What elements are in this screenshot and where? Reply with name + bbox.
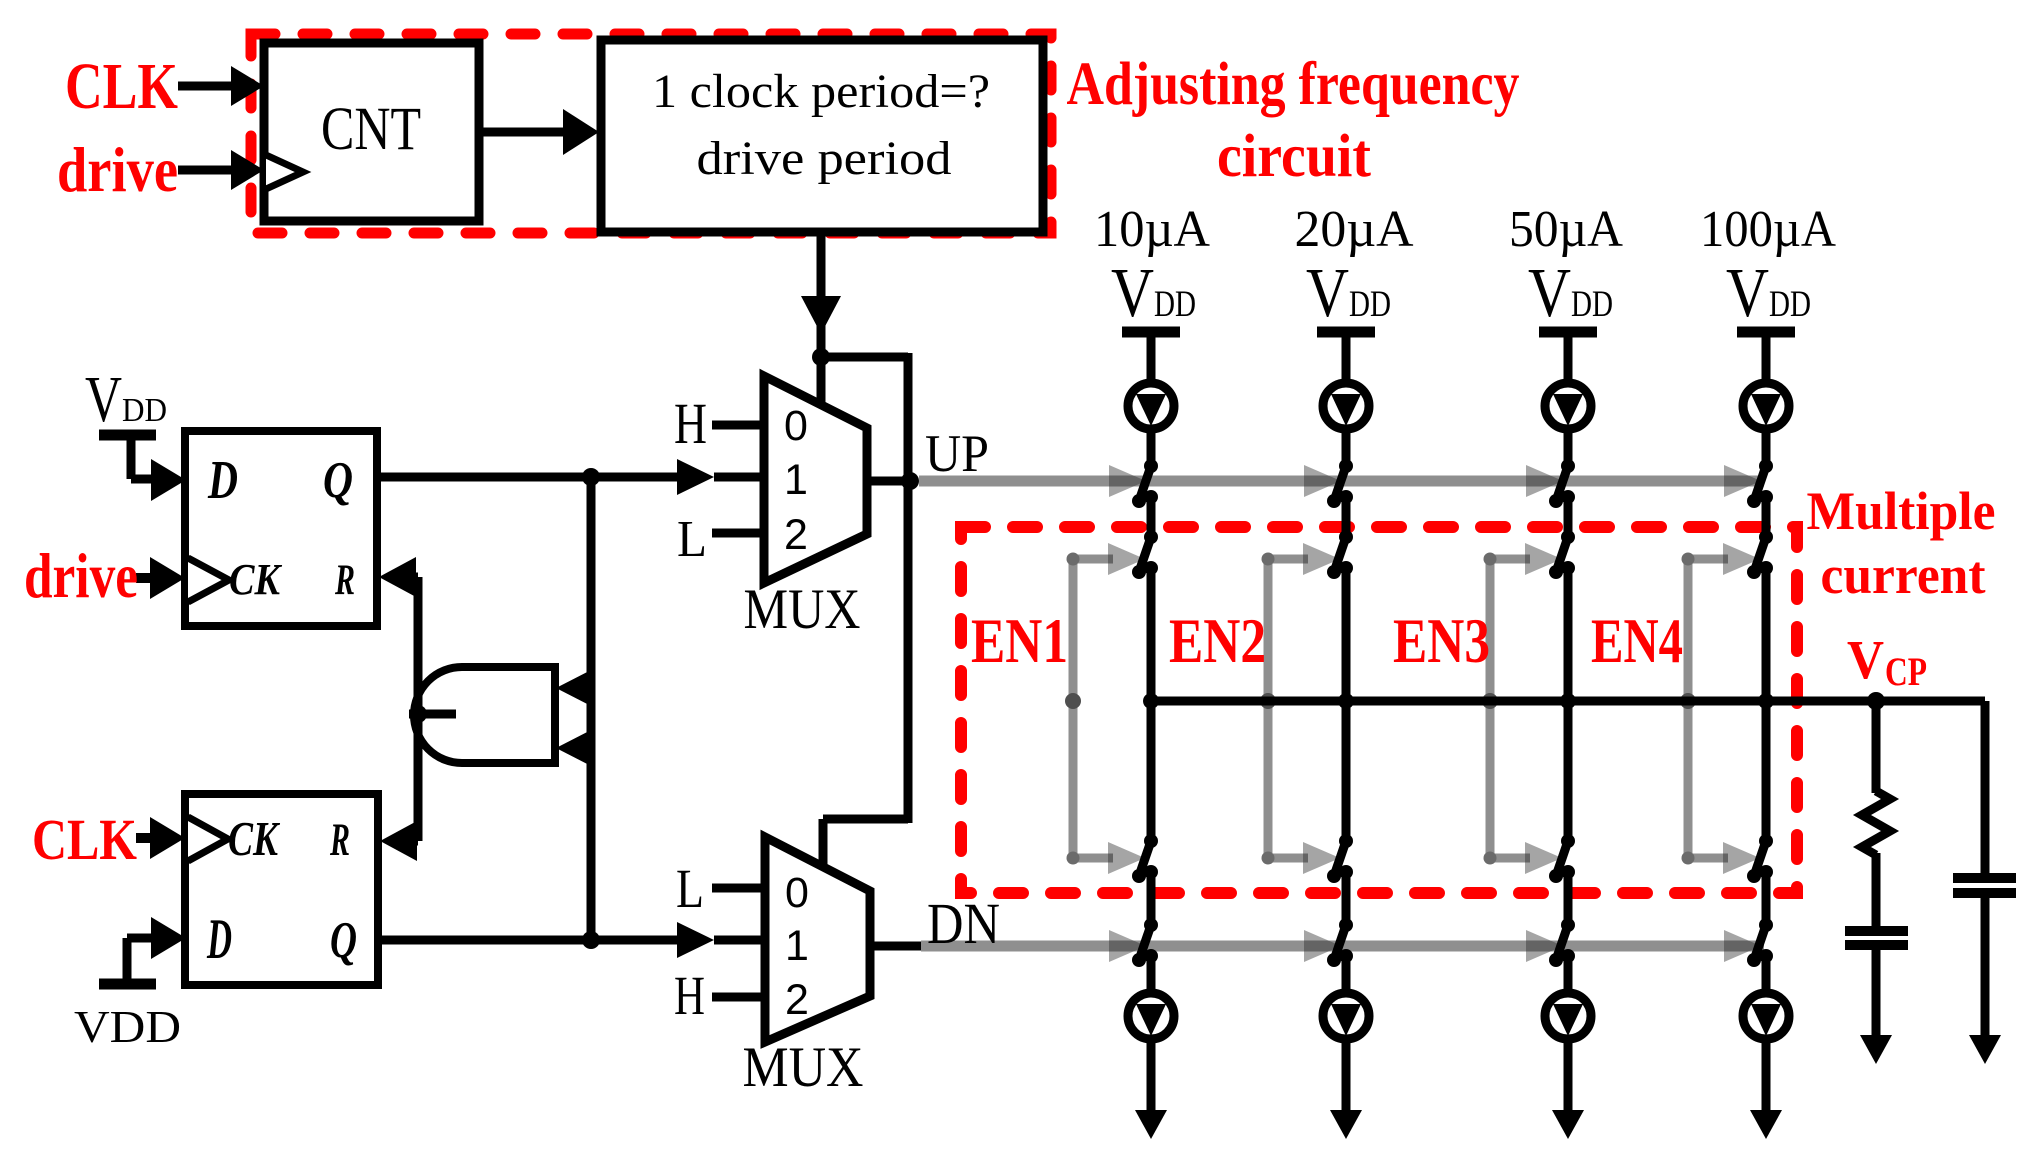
svg-text:CP: CP xyxy=(1885,649,1927,694)
wire reset to U1 R xyxy=(398,573,418,582)
current source I1 bottom xyxy=(1128,993,1174,1039)
svg-text:EN2: EN2 xyxy=(1169,605,1266,676)
current source I4 top (100µA) xyxy=(1743,383,1789,429)
arrow UP net into switch column 2 xyxy=(1304,465,1341,497)
svg-text:DN: DN xyxy=(927,891,1000,956)
arrow EN4 to lower switch xyxy=(1723,842,1760,874)
arrow into AND gate input B xyxy=(556,728,595,768)
ground arrow C2 xyxy=(1969,1035,2001,1064)
svg-text:D: D xyxy=(206,908,232,971)
wire DN net (grey) xyxy=(921,941,1764,952)
svg-text:2: 2 xyxy=(784,511,808,559)
wire column 4 segments xyxy=(1762,429,1771,470)
arrow EN2 to upper switch xyxy=(1303,543,1340,575)
arrow DN net into switch column 4 xyxy=(1724,930,1761,962)
power VDD symbol (column 3) xyxy=(1539,327,1597,338)
svg-text:circuit: circuit xyxy=(1217,123,1372,190)
switch S12 (EN charge switch, column 1) xyxy=(1144,530,1158,544)
mux U5 (DN path) trapezoid xyxy=(765,837,870,1042)
power VDD symbol (column 1) xyxy=(1122,327,1180,338)
svg-text:drive period: drive period xyxy=(697,132,952,185)
power VDD symbol (column 2) xyxy=(1317,327,1375,338)
arrow CLK into CNT xyxy=(231,66,264,106)
arrow UP net into switch column 4 xyxy=(1724,465,1761,497)
svg-text:DD: DD xyxy=(122,392,167,429)
ground arrow column 1 xyxy=(1135,1110,1167,1139)
wire L into lower MUX input 0 xyxy=(712,884,767,893)
svg-text:L: L xyxy=(677,511,707,568)
svg-text:EN3: EN3 xyxy=(1393,605,1490,676)
wire select branch to lower MUX xyxy=(821,353,908,362)
junction column/common xyxy=(1758,693,1774,709)
arrow CLK into U2 CK xyxy=(150,817,185,859)
wire select from compare box to upper MUX xyxy=(817,232,826,405)
arrow DN net into switch column 3 xyxy=(1526,930,1563,962)
wire VCP to resistor R1 xyxy=(1872,701,1881,793)
pin CK wedge of U2 xyxy=(188,817,228,861)
dashed box: Multiple current xyxy=(961,527,1797,893)
resistor R1 xyxy=(1862,791,1890,855)
current source I3 top (50µA) xyxy=(1545,383,1591,429)
svg-text:UP: UP xyxy=(925,425,989,483)
wire column 3 segments xyxy=(1564,429,1573,470)
flip-flop U2 (CLK DFF) box xyxy=(185,794,378,985)
svg-text:drive: drive xyxy=(57,135,178,205)
power VDD symbol (FF1 D input) xyxy=(99,430,156,441)
junction column/common xyxy=(1338,693,1354,709)
power VDD symbol (column 4) xyxy=(1737,327,1795,338)
arrow EN1 to lower switch xyxy=(1108,842,1145,874)
svg-text:Q: Q xyxy=(330,912,357,969)
svg-text:R: R xyxy=(334,557,355,604)
node drive (top input label wire) xyxy=(178,166,236,175)
svg-text:drive: drive xyxy=(24,541,138,611)
switch S33 (EN discharge switch, column 3) xyxy=(1561,834,1575,848)
wire H into upper MUX input 0 xyxy=(712,421,766,430)
ground arrow C1 xyxy=(1860,1035,1892,1064)
svg-text:0: 0 xyxy=(784,402,808,450)
arrow drive into U1 CK xyxy=(150,557,185,599)
pin CK wedge of U1 xyxy=(188,558,229,602)
arrow UP net into switch column 1 xyxy=(1109,465,1146,497)
wire EN4 control loop (grey) xyxy=(1684,559,1693,858)
arrow into AND gate input A xyxy=(556,668,595,708)
dashed box: Adjusting frequency circuit xyxy=(251,34,1051,233)
junction UP node xyxy=(901,472,919,490)
switch S24 (DN switch, column 2) xyxy=(1339,918,1353,932)
switch S13 (EN discharge switch, column 1) xyxy=(1144,834,1158,848)
svg-text:H: H xyxy=(674,391,707,456)
wire reset vertical xyxy=(414,577,423,841)
svg-text:DD: DD xyxy=(1154,284,1196,325)
wire DN output stub xyxy=(870,942,921,951)
junction select node xyxy=(812,348,830,366)
svg-text:1: 1 xyxy=(785,922,809,970)
arrow EN3 to upper switch xyxy=(1525,543,1562,575)
junction VCP node xyxy=(1867,692,1885,710)
arrow EN4 to upper switch xyxy=(1723,543,1760,575)
wire H into lower MUX input 2 xyxy=(712,993,767,1002)
svg-text:V: V xyxy=(1111,255,1154,332)
wire common charge-pump output node xyxy=(1151,697,1985,706)
svg-text:CLK: CLK xyxy=(65,50,178,123)
capacitor C1 xyxy=(1845,926,1908,936)
svg-text:CLK: CLK xyxy=(32,807,137,872)
arrow EN2 to lower switch xyxy=(1303,842,1340,874)
AND gate U3 (reset, mirrored left-facing) xyxy=(414,667,555,763)
switch S42 (EN charge switch, column 4) xyxy=(1759,530,1773,544)
junction column/common xyxy=(1143,693,1159,709)
svg-text:V: V xyxy=(1847,629,1884,690)
pin CK wedge of CNT xyxy=(266,155,303,189)
arrow select into upper MUX xyxy=(801,296,841,334)
wire L into upper MUX input 2 xyxy=(712,529,766,538)
switch S41 (UP switch, column 4) xyxy=(1759,459,1773,473)
switch S32 (EN charge switch, column 3) xyxy=(1561,530,1575,544)
wire AND output xyxy=(409,710,456,719)
arrow into FF1 D pin xyxy=(151,459,186,501)
svg-text:current: current xyxy=(1821,545,1986,605)
wire U1 Q output xyxy=(377,473,679,482)
switch S11 (UP switch, column 1) xyxy=(1144,459,1158,473)
arrow DN net into switch column 2 xyxy=(1304,930,1341,962)
node CLK (top input label wire) xyxy=(178,82,236,91)
svg-text:DD: DD xyxy=(1349,284,1391,325)
arrow into compare box xyxy=(563,109,599,155)
block: 1 clock period=? drive period xyxy=(601,40,1043,232)
svg-text:0: 0 xyxy=(785,869,809,917)
svg-text:CNT: CNT xyxy=(321,96,421,163)
svg-text:Adjusting frequency: Adjusting frequency xyxy=(1067,51,1520,118)
switch S21 (UP switch, column 2) xyxy=(1339,459,1353,473)
wire CNT to compare box xyxy=(479,128,566,137)
arrow into U1 R pin xyxy=(379,557,416,597)
svg-text:EN4: EN4 xyxy=(1591,605,1683,676)
svg-text:EN1: EN1 xyxy=(971,605,1068,676)
ground arrow column 4 xyxy=(1750,1110,1782,1139)
ground arrow column 2 xyxy=(1330,1110,1362,1139)
switch S14 (DN switch, column 1) xyxy=(1144,918,1158,932)
svg-text:2: 2 xyxy=(785,976,809,1024)
svg-text:Q: Q xyxy=(323,452,353,509)
svg-text:H: H xyxy=(674,965,705,1026)
wire UP output stub xyxy=(867,477,917,486)
arrow drive into CNT xyxy=(231,150,264,190)
wire CLK label to U2 CK xyxy=(136,833,150,843)
current source I2 top (20µA) xyxy=(1323,383,1369,429)
switch S22 (EN charge switch, column 2) xyxy=(1339,530,1353,544)
wire reset to U2 R xyxy=(398,837,418,846)
junction U1 Q node xyxy=(582,468,600,486)
switch S44 (DN switch, column 4) xyxy=(1759,918,1773,932)
svg-text:CK: CK xyxy=(228,811,281,866)
arrow into U2 D pin xyxy=(151,917,186,959)
svg-text:R: R xyxy=(329,814,350,866)
wire EN1 control loop (grey) xyxy=(1069,559,1078,858)
svg-text:L: L xyxy=(676,858,704,919)
svg-text:10µA: 10µA xyxy=(1094,201,1210,258)
arrow U2 Q into lower MUX input 1 xyxy=(677,922,714,958)
wire column 2 segments xyxy=(1342,429,1351,470)
flip-flop U1 (drive DFF) box xyxy=(185,431,377,626)
arrow EN3 to lower switch xyxy=(1525,842,1562,874)
svg-text:V: V xyxy=(1306,255,1349,332)
svg-text:D: D xyxy=(207,449,238,510)
wire EN3 control loop (grey) xyxy=(1486,559,1495,858)
switch S31 (UP switch, column 3) xyxy=(1561,459,1575,473)
junction reset node xyxy=(409,705,427,723)
current source I4 bottom xyxy=(1743,993,1789,1039)
svg-text:1: 1 xyxy=(784,456,808,504)
arrow EN1 to upper switch xyxy=(1108,543,1145,575)
switch S43 (EN discharge switch, column 4) xyxy=(1759,834,1773,848)
switch S23 (EN discharge switch, column 2) xyxy=(1339,834,1353,848)
junction column/common xyxy=(1560,693,1576,709)
current source I2 bottom xyxy=(1323,993,1369,1039)
wire drive label to U1 CK xyxy=(136,573,150,583)
svg-text:MUX: MUX xyxy=(743,1036,864,1099)
arrow into U2 R pin xyxy=(380,821,417,861)
junction U2 Q node xyxy=(582,931,600,949)
wire to far right capacitor xyxy=(1981,701,1990,873)
current source I3 bottom xyxy=(1545,993,1591,1039)
wire column 1 segments xyxy=(1147,429,1156,470)
svg-text:50µA: 50µA xyxy=(1509,201,1623,258)
svg-text:20µA: 20µA xyxy=(1295,201,1414,258)
mux U4 (UP path) trapezoid xyxy=(764,376,867,583)
svg-text:DD: DD xyxy=(1769,284,1811,325)
wire EN2 control loop (grey) xyxy=(1264,559,1273,858)
switch S34 (DN switch, column 3) xyxy=(1561,918,1575,932)
counter CNT box xyxy=(264,43,479,221)
power VDD symbol (U2 D input) xyxy=(99,979,156,990)
svg-text:1 clock period=?: 1 clock period=? xyxy=(652,65,990,118)
svg-text:V: V xyxy=(1726,255,1769,332)
svg-text:MUX: MUX xyxy=(744,578,861,641)
svg-text:V: V xyxy=(85,363,122,436)
svg-text:CK: CK xyxy=(229,555,282,604)
current source I1 top (10µA) xyxy=(1128,383,1174,429)
wire UP net (grey) xyxy=(919,476,1764,487)
svg-text:VDD: VDD xyxy=(74,1001,181,1052)
svg-text:Multiple: Multiple xyxy=(1807,481,1996,541)
wire U2 Q output xyxy=(378,936,679,945)
arrow DN net into switch column 1 xyxy=(1109,930,1146,962)
svg-text:100µA: 100µA xyxy=(1700,201,1836,258)
capacitor C2 (far right) xyxy=(1953,873,2016,883)
svg-text:DD: DD xyxy=(1571,284,1613,325)
arrow U1 Q into upper MUX input 1 xyxy=(677,459,714,495)
svg-text:V: V xyxy=(1528,255,1571,332)
ground arrow column 3 xyxy=(1552,1110,1584,1139)
wire Q bus vertical (U1 Q to U2 Q) xyxy=(587,477,596,940)
arrow UP net into switch column 3 xyxy=(1526,465,1563,497)
